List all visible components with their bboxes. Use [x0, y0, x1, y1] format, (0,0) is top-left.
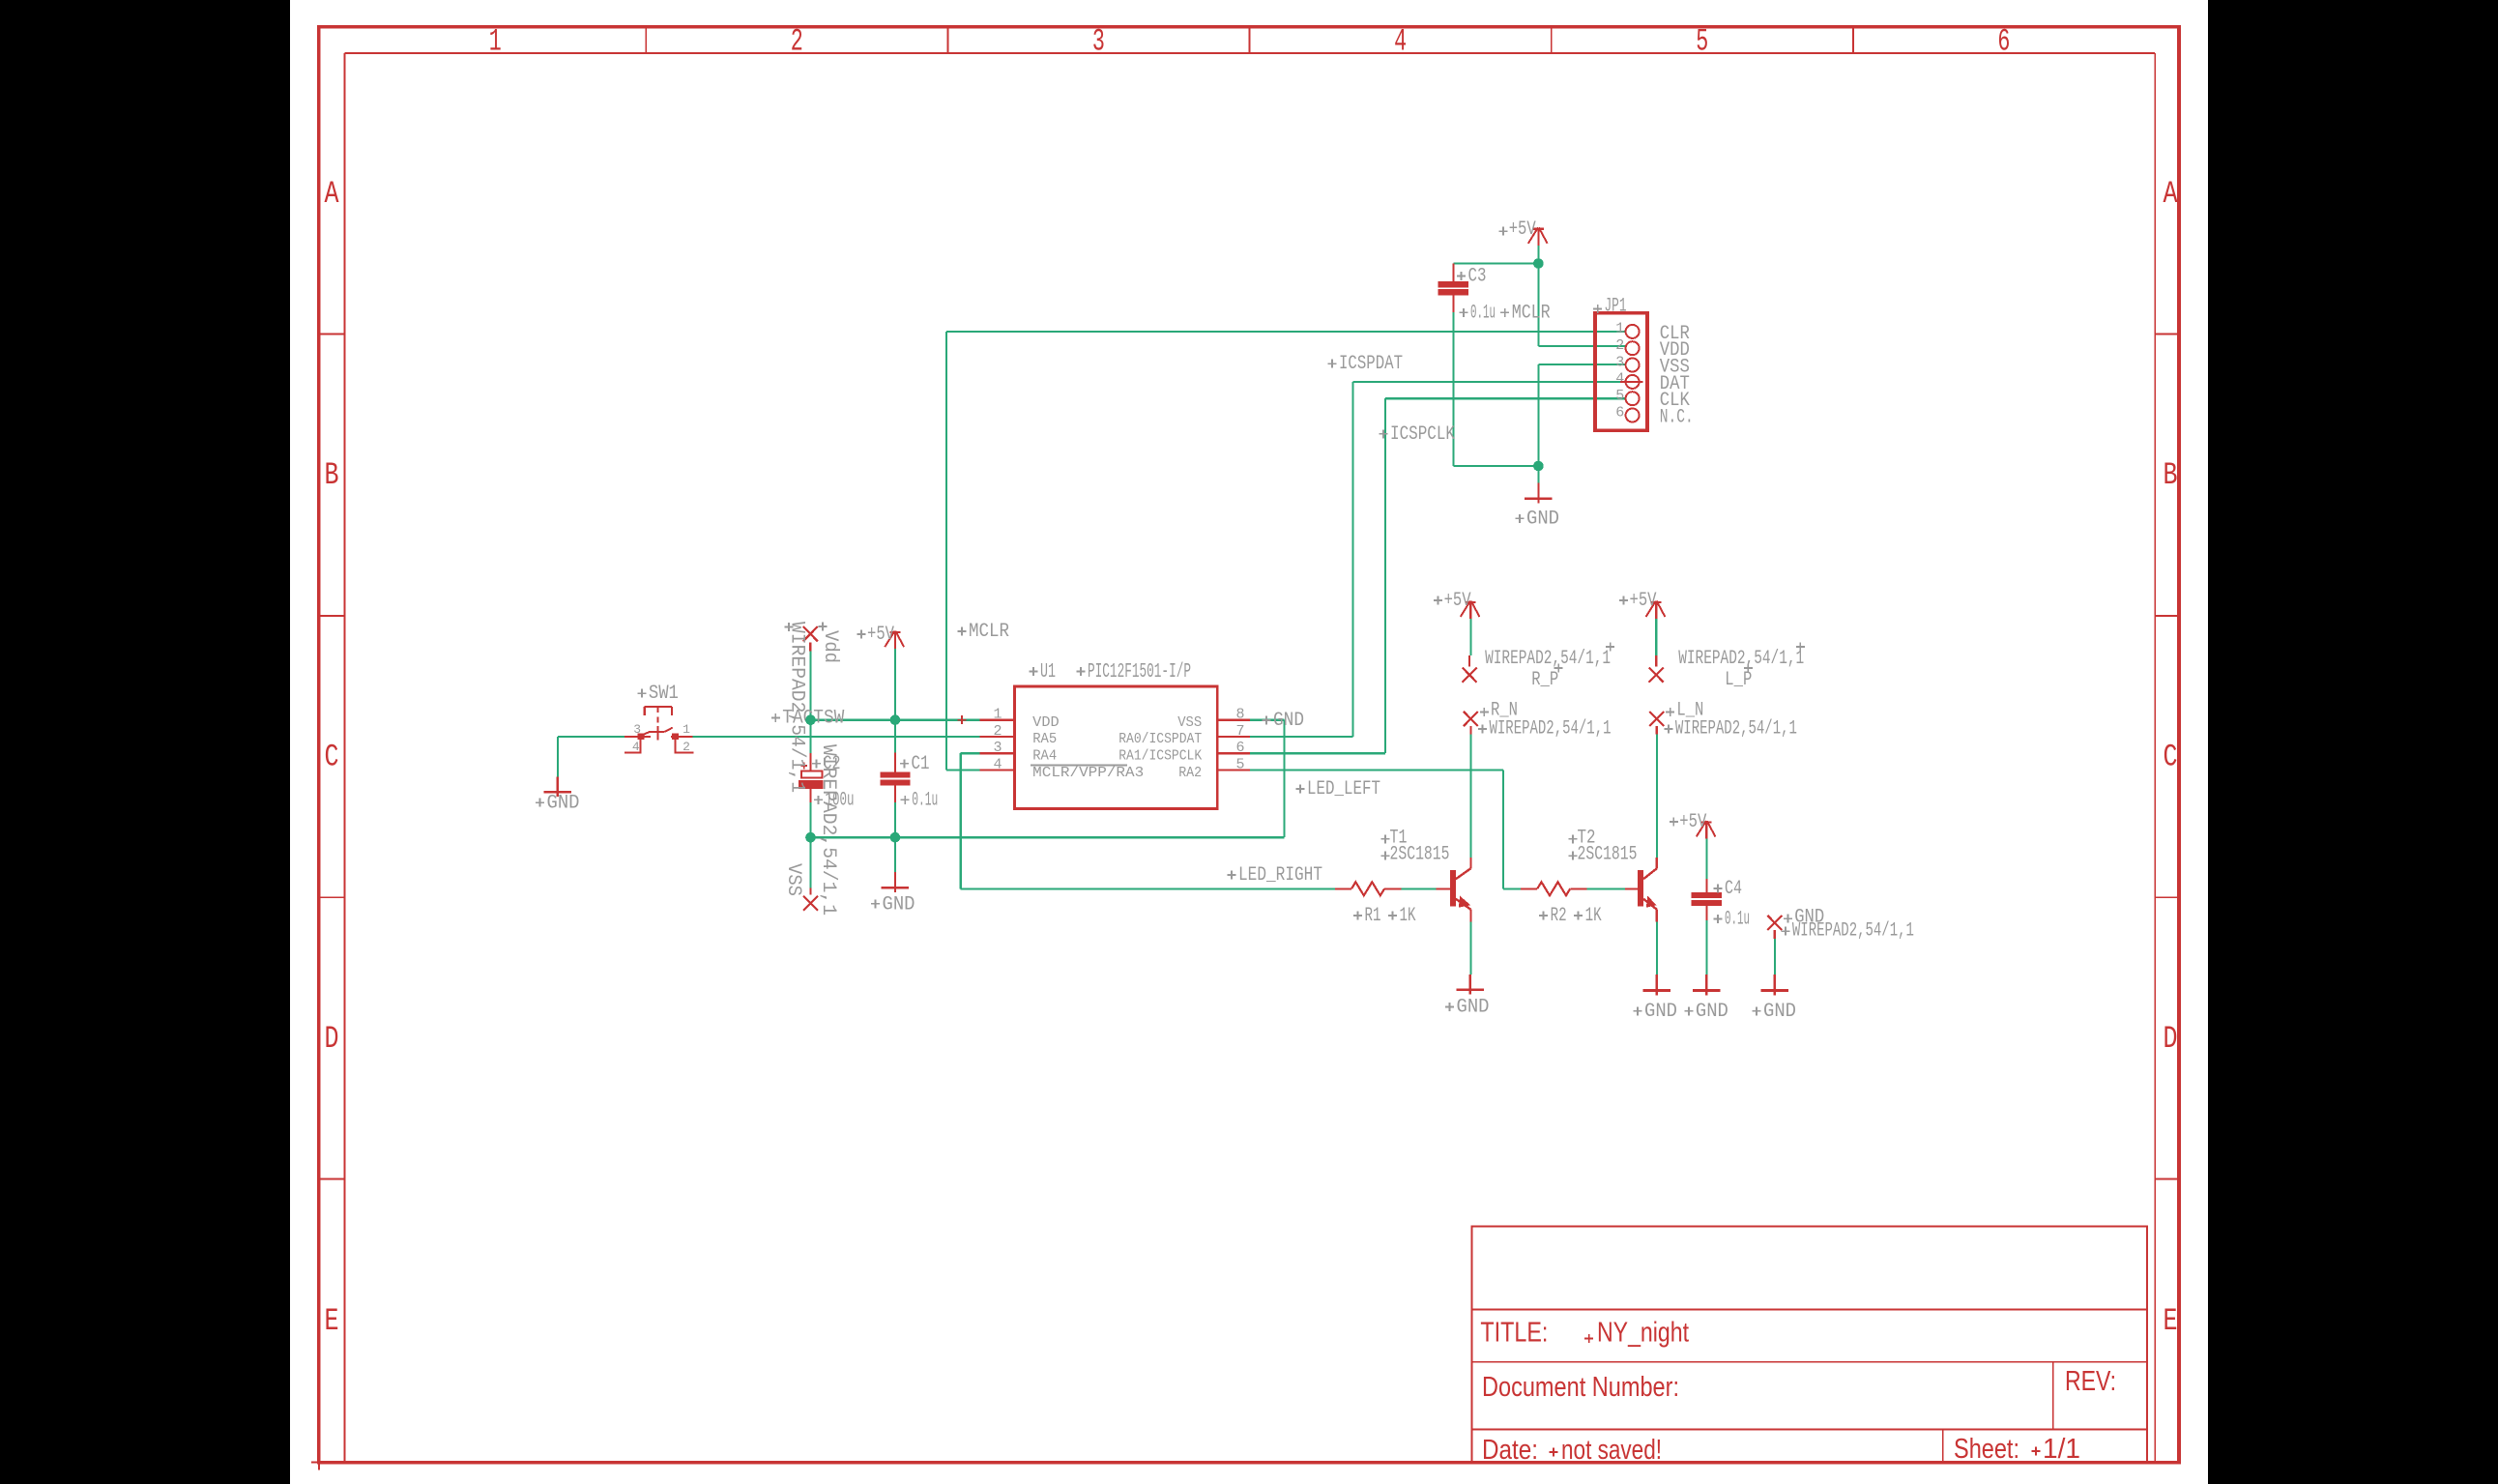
wire net LED_RIGHT wire to R1 — [961, 887, 1335, 889]
svg-text:1: 1 — [993, 707, 1002, 723]
R1 value label 1K — [1388, 905, 1416, 927]
R1 name label — [1353, 905, 1381, 927]
switch SW1 — [624, 707, 693, 753]
svg-text:GND: GND — [1644, 1001, 1677, 1023]
supply +5V above C1 label — [857, 624, 895, 646]
svg-text:2SC1815: 2SC1815 — [1578, 844, 1638, 866]
svg-text:REV:: REV: — [2065, 1366, 2116, 1397]
capacitor C2 polarized — [799, 753, 823, 802]
svg-text:B: B — [2164, 457, 2178, 493]
supply +5V above L_P label — [1619, 590, 1657, 612]
wire net VDD wire 5V-junction to C3 corner — [1453, 262, 1538, 264]
frame row label A left — [325, 176, 340, 212]
svg-text:RA2: RA2 — [1178, 765, 1202, 781]
T1 name label — [1381, 828, 1408, 850]
wire net VDD wire junction down — [1537, 264, 1539, 347]
net label ICSPDAT — [1328, 353, 1404, 375]
svg-text:RA5: RA5 — [1032, 731, 1057, 747]
title block REV label — [2065, 1366, 2116, 1397]
JP1 pad 3 — [1626, 359, 1640, 372]
svg-text:2: 2 — [1615, 337, 1624, 354]
U1 pin name RA5 — [1032, 731, 1057, 747]
svg-text:1: 1 — [489, 24, 502, 60]
wire net VDD wire 5V to junction — [894, 649, 896, 720]
svg-text:5: 5 — [1615, 388, 1624, 404]
svg-text:LED_LEFT: LED_LEFT — [1307, 778, 1380, 800]
U1 pin name RA0/ICSPDAT — [1118, 731, 1202, 747]
junction GND C2 rail — [805, 832, 816, 843]
svg-text:N.C.: N.C. — [1660, 407, 1694, 429]
svg-text:GND: GND — [1696, 1001, 1728, 1023]
net label LED_RIGHT — [1228, 864, 1323, 887]
JP1 pin number 5 — [1615, 388, 1624, 404]
wirepad Vdd origin crosses — [785, 623, 828, 632]
wire net SW wire left of SW1 — [558, 736, 624, 738]
svg-text:3: 3 — [1615, 354, 1624, 370]
JP1 pin number 1 — [1615, 321, 1624, 337]
svg-text:D: D — [2164, 1021, 2178, 1057]
title block sheet value 1/1 — [2032, 1434, 2081, 1465]
C3 name label — [1457, 266, 1487, 288]
svg-text:WIREPAD2,54/1,1: WIREPAD2,54/1,1 — [1485, 648, 1611, 670]
wire net VDD wire junction to C1 — [894, 720, 896, 753]
junction VDD C1/pin1 — [890, 714, 901, 725]
U1 pin 1 number — [993, 707, 1002, 723]
ground under C1 — [882, 872, 910, 892]
JP1 pad label VDD — [1660, 339, 1690, 362]
wirepad Vdd — [803, 626, 818, 652]
svg-text:A: A — [2164, 176, 2179, 212]
net label MCLR at U1 — [958, 621, 1010, 643]
C4 value label 0.1u — [1714, 909, 1751, 931]
frame column label 3 — [1092, 24, 1105, 60]
wire net VDD wire 5V symbol to junction — [1537, 246, 1539, 264]
C1 name label — [900, 753, 930, 775]
wire net GND wire to VSS pad — [809, 837, 811, 887]
svg-text:NY_night: NY_night — [1597, 1318, 1689, 1349]
JP1 pad label CLR — [1660, 323, 1690, 345]
U1 MCLR overline — [1031, 765, 1127, 767]
wire net LED_LEFT wire to R2 — [1503, 887, 1521, 889]
frame inner border top — [344, 52, 2155, 54]
supply +5V above R_P label — [1434, 590, 1471, 612]
title block Date label — [1482, 1435, 1538, 1466]
svg-text:C4: C4 — [1725, 878, 1742, 900]
wirepad R_N value label — [1478, 717, 1611, 740]
wire net MCLR wire to U1 pin4 — [946, 769, 980, 771]
svg-text:VDD: VDD — [1032, 714, 1060, 731]
frame row label D right — [2164, 1021, 2178, 1057]
wirepad L_N — [1649, 712, 1664, 735]
svg-text:3: 3 — [993, 740, 1002, 756]
svg-text:C: C — [325, 740, 339, 775]
frame column label 1 — [489, 24, 502, 60]
frame row label C right — [2164, 740, 2178, 775]
svg-text:SW1: SW1 — [649, 683, 679, 705]
T2 name label — [1569, 828, 1596, 850]
SW1 pin number 1 — [683, 722, 690, 737]
C4 name label — [1714, 878, 1743, 900]
svg-text:1K: 1K — [1400, 905, 1416, 927]
svg-text:C: C — [2164, 740, 2178, 775]
frame outer border — [319, 27, 2179, 1463]
ground under T2 — [1643, 975, 1671, 995]
svg-text:GND: GND — [1273, 710, 1304, 732]
wirepad R_P — [1463, 655, 1477, 683]
svg-text:0.1u: 0.1u — [1470, 302, 1496, 324]
net label MCLR at C3 — [1500, 302, 1551, 324]
wire net R1-T1 wire — [1401, 887, 1436, 889]
svg-text:+5V: +5V — [867, 624, 894, 646]
svg-text:6: 6 — [1997, 24, 2010, 60]
IC U1 PIC12F1501 body — [1015, 686, 1218, 809]
svg-text:ICSPCLK: ICSPCLK — [1390, 423, 1455, 446]
T2 value label 2SC1815 — [1569, 844, 1638, 866]
wire net GND wire U1 pin8 — [1250, 719, 1285, 721]
svg-text:E: E — [325, 1303, 339, 1339]
svg-text:RA4: RA4 — [1032, 748, 1057, 765]
U1 pin 2 number — [993, 723, 1002, 740]
U1 pin 2 stub — [980, 736, 1015, 738]
svg-text:R1: R1 — [1365, 905, 1381, 927]
capacitor C4 — [1692, 879, 1722, 920]
wire net MCLR wire long horizontal — [946, 331, 1626, 333]
svg-text:0.1u: 0.1u — [1725, 909, 1750, 931]
wirepad L_N name label — [1666, 700, 1703, 722]
C2 value label 100u — [814, 789, 855, 811]
svg-text:+5V: +5V — [1509, 218, 1536, 241]
junction VDD at 5V/JP1 — [1533, 258, 1544, 269]
SW1 pin number 3 — [633, 722, 641, 737]
ground under T1 — [1456, 975, 1484, 995]
frame row label B left — [325, 457, 339, 493]
U1 pin 8 number — [1235, 707, 1244, 723]
frame row dividers left — [319, 334, 345, 1178]
wirepad R_N name label — [1480, 700, 1518, 722]
wire net ICSPDAT wire to U1 pin7 — [1250, 736, 1352, 738]
svg-text:GND: GND — [883, 893, 915, 916]
wire net GND wire pin8 down — [1283, 720, 1285, 838]
C2 name label — [812, 753, 841, 775]
svg-text:WIREPAD2,54/1,1: WIREPAD2,54/1,1 — [1678, 648, 1804, 670]
net label LED_LEFT — [1296, 778, 1381, 800]
svg-text:C3: C3 — [1468, 266, 1487, 288]
U1 pin name RA1/ICSPCLK — [1118, 748, 1202, 765]
SW1 pin number 4 — [632, 740, 640, 754]
U1 pin name VDD — [1032, 714, 1060, 731]
title block Sheet label — [1954, 1434, 2019, 1465]
svg-text:4: 4 — [1615, 371, 1624, 388]
svg-text:PIC12F1501-I/P: PIC12F1501-I/P — [1088, 661, 1191, 684]
wire net MCLR wire vertical — [945, 332, 947, 771]
wirepad R_P name label — [1531, 664, 1563, 692]
sheet origin cross — [311, 1455, 327, 1470]
svg-text:MCLR: MCLR — [1512, 302, 1551, 324]
wirepad VSS — [803, 888, 818, 911]
U1 pin 3 number — [993, 740, 1002, 756]
frame row dividers right — [2155, 334, 2179, 1178]
svg-text:2: 2 — [993, 723, 1002, 740]
svg-text:4: 4 — [1394, 24, 1407, 60]
wire net GND wire junction to C2 top — [809, 720, 811, 754]
U1 pin 7 number — [1235, 723, 1244, 740]
wire net GND wire T1 emitter — [1469, 921, 1471, 974]
frame column label 6 — [1997, 24, 2010, 60]
wire net L_N wire pad to T2 collector — [1656, 735, 1658, 858]
JP1 pin number 3 — [1615, 354, 1624, 370]
svg-text:WIREPAD2,54/1,1: WIREPAD2,54/1,1 — [1792, 919, 1914, 942]
wirepad L_P value label — [1678, 643, 1805, 671]
svg-text:A: A — [325, 176, 340, 212]
title block title value NY_night — [1584, 1318, 1689, 1349]
svg-text:TITLE:: TITLE: — [1480, 1318, 1548, 1349]
svg-text:ICSPDAT: ICSPDAT — [1339, 353, 1403, 375]
svg-text:WIREPAD2,54/1,1: WIREPAD2,54/1,1 — [1490, 717, 1612, 740]
wire net GND wire C3 bottom — [1452, 312, 1454, 466]
U1 pin 4 stub — [980, 769, 1015, 771]
svg-text:WIREPAD2,54/1,1: WIREPAD2,54/1,1 — [817, 744, 839, 916]
svg-text:3: 3 — [633, 722, 641, 737]
JP1 origin cross pin4 — [1620, 381, 1643, 383]
svg-text:Vdd: Vdd — [819, 630, 841, 663]
title block Document Number label — [1482, 1372, 1679, 1403]
wire net LED_LEFT wire vertical — [1502, 771, 1504, 889]
frame column label 5 — [1696, 24, 1708, 60]
svg-text:MCLR: MCLR — [969, 621, 1009, 643]
wire net GND wire T2 emitter — [1656, 920, 1658, 975]
supply +5V above R_P — [1461, 601, 1480, 620]
transistor T2 2SC1815 — [1625, 858, 1657, 922]
svg-text:Date:: Date: — [1482, 1435, 1538, 1466]
title block outline — [1472, 1227, 2147, 1463]
svg-text:6: 6 — [1235, 740, 1244, 756]
wire net SW wire down to gnd — [557, 737, 559, 777]
wire net GND wire JP1 pin3 — [1538, 364, 1625, 365]
U1 pin name RA2 — [1178, 765, 1202, 781]
supply +5V above C1 — [885, 631, 904, 650]
ground under C4 label — [1684, 1001, 1728, 1023]
JP1 pad 5 — [1626, 392, 1640, 405]
wire net GND wire C2 bottom — [809, 802, 811, 837]
SW1 pin number 2 — [683, 740, 690, 754]
supply +5V above JP1 label — [1499, 218, 1536, 241]
svg-text:2: 2 — [791, 24, 803, 60]
capacitor C1 — [880, 753, 910, 803]
wire net R2-T2 wire — [1587, 887, 1625, 889]
ground under C1 label — [871, 893, 915, 916]
svg-text:6: 6 — [1615, 404, 1624, 421]
C1 value label 0.1u — [901, 789, 939, 811]
svg-text:0.1u: 0.1u — [912, 789, 938, 811]
svg-text:8: 8 — [1235, 707, 1244, 723]
wire net VDD wire 5V to C4 — [1705, 839, 1707, 879]
wire net VDD wire to U1 pin1 — [811, 719, 980, 721]
U1 pin name VSS — [1177, 714, 1202, 731]
ground under SW1 net label — [536, 793, 580, 815]
svg-text:JP1: JP1 — [1605, 296, 1627, 318]
U1 pin name RA4 — [1032, 748, 1057, 765]
ground under T1 label — [1445, 997, 1490, 1019]
supply +5V above L_P — [1646, 601, 1666, 620]
U1 pin 6 stub — [1217, 752, 1250, 754]
resistor R2 — [1521, 882, 1587, 895]
JP1 pad label N.C. — [1660, 407, 1694, 429]
JP1 pad 1 — [1626, 325, 1640, 338]
svg-text:1: 1 — [1615, 321, 1624, 337]
wire net VDD wire L_P 5V — [1655, 619, 1657, 655]
ground under GND pad — [1761, 975, 1789, 995]
U1 pin 8 stub — [1217, 719, 1250, 721]
wire net GND wire C1 to gnd symbol — [894, 837, 896, 874]
wirepad L_N value label — [1665, 717, 1797, 740]
junction GND under JP1 — [1533, 461, 1544, 472]
wirepad VSS name vertical — [782, 863, 804, 896]
net label ICSPCLK — [1380, 423, 1456, 446]
wirepad VSS value vertical — [817, 744, 839, 916]
svg-text:7: 7 — [1235, 723, 1244, 740]
wire net GND wire C3 to junction — [1453, 465, 1538, 467]
frame row label B right — [2164, 457, 2178, 493]
capacitor C3 — [1438, 264, 1468, 312]
svg-text:1: 1 — [683, 722, 690, 737]
ground under GND pad label — [1753, 1001, 1797, 1023]
svg-text:4: 4 — [632, 740, 640, 754]
wirepad GND — [1767, 916, 1782, 939]
U1 pin 3 stub — [980, 752, 1015, 754]
frame column label 4 — [1394, 24, 1407, 60]
frame row label C left — [325, 740, 339, 775]
wire net GND wire vertical under JP1 — [1537, 364, 1539, 466]
SW1 value label TACTSW — [771, 708, 845, 730]
U1 origin cross — [958, 715, 967, 724]
svg-text:Document Number:: Document Number: — [1482, 1372, 1679, 1403]
svg-text:WIREPAD2,54/1,1: WIREPAD2,54/1,1 — [1675, 717, 1797, 740]
JP1 pin number 2 — [1615, 337, 1624, 354]
svg-text:GND: GND — [1526, 508, 1559, 530]
svg-text:L_P: L_P — [1725, 669, 1752, 691]
wire net LED_RIGHT wire U1 pin3 stub — [961, 752, 980, 754]
wirepad L_P name label — [1725, 664, 1753, 692]
U1 pin 7 stub — [1217, 736, 1250, 738]
svg-text:1/1: 1/1 — [2043, 1434, 2080, 1465]
wire net R_N wire pad to T1 collector — [1469, 735, 1471, 858]
U1 pin 4 number — [993, 757, 1002, 773]
wirepad Vdd value vertical — [786, 622, 808, 793]
svg-text:GND: GND — [1763, 1001, 1796, 1023]
JP1 pad 6 — [1626, 409, 1640, 422]
supply +5V above C4 label — [1670, 811, 1707, 833]
svg-text:R2: R2 — [1551, 905, 1567, 927]
wirepad L_P — [1649, 655, 1664, 683]
resistor R1 — [1335, 882, 1401, 895]
svg-text:VSS: VSS — [782, 863, 804, 896]
svg-text:B: B — [325, 457, 339, 493]
svg-text:MCLR/VPP/RA3: MCLR/VPP/RA3 — [1032, 765, 1144, 781]
wire net ICSPCLK wire to U1 pin6 — [1250, 752, 1385, 754]
wire net ICSPDAT wire to JP1 pin4 — [1352, 381, 1625, 383]
wire net GND wire pad down — [1774, 939, 1776, 975]
frame inner border right — [2154, 53, 2156, 1463]
U1 pin 5 number — [1235, 757, 1244, 773]
svg-text:2SC1815: 2SC1815 — [1390, 844, 1450, 866]
supply +5V above JP1 — [1528, 227, 1548, 246]
svg-text:2: 2 — [683, 740, 690, 754]
svg-text:LED_RIGHT: LED_RIGHT — [1238, 864, 1322, 887]
junction VDD Vdd-pad/pin1 — [805, 714, 816, 725]
wirepad GND value label — [1782, 919, 1914, 942]
wire net ICSPDAT wire vertical — [1351, 382, 1353, 737]
wire net GND wire C4 bottom — [1705, 920, 1707, 975]
frame row label E left — [325, 1303, 339, 1339]
connector JP1 body — [1595, 313, 1647, 431]
wire net VDD wire to JP1 pin2 — [1538, 345, 1625, 347]
U1 name label — [1030, 661, 1057, 684]
SW1 name label — [637, 683, 679, 705]
svg-text:5: 5 — [1235, 757, 1244, 773]
R2 value label 1K — [1574, 905, 1602, 927]
ground under JP1 — [1525, 483, 1553, 504]
U1 pin name MCLR/VPP/RA3 — [1032, 765, 1144, 781]
svg-text:GND: GND — [1457, 997, 1490, 1019]
ground under SW1 net — [544, 776, 572, 797]
title block TITLE label — [1480, 1318, 1548, 1349]
JP1 pad 4 — [1626, 375, 1640, 389]
svg-text:RA1/ICSPCLK: RA1/ICSPCLK — [1118, 748, 1202, 765]
wirepad R_N — [1464, 712, 1478, 735]
ground under T2 label — [1634, 1001, 1678, 1023]
frame column dividers — [646, 27, 1853, 53]
svg-text:C1: C1 — [912, 753, 930, 775]
R2 name label — [1539, 905, 1567, 927]
wire net ICSPCLK wire vertical — [1384, 398, 1386, 753]
supply +5V above C4 — [1697, 821, 1716, 839]
svg-text:R_P: R_P — [1531, 669, 1558, 691]
title block date value not saved! — [1550, 1435, 1663, 1466]
svg-text:not saved!: not saved! — [1561, 1435, 1662, 1466]
frame row label D left — [325, 1021, 339, 1057]
C3 value label 0.1u — [1460, 302, 1496, 324]
svg-text:3: 3 — [1092, 24, 1105, 60]
wire net LED_LEFT wire U1 pin5 — [1250, 769, 1503, 771]
svg-text:+5V: +5V — [1679, 811, 1706, 833]
svg-text:1K: 1K — [1585, 905, 1602, 927]
U1 pin 5 stub — [1217, 769, 1250, 771]
wire net ICSPCLK wire to JP1 pin5 — [1385, 397, 1626, 399]
wirepad Vdd name vertical — [819, 630, 841, 663]
JP1 pad label CLK — [1660, 390, 1690, 412]
schematic sheet background — [290, 0, 2208, 1484]
frame row label A right — [2164, 176, 2179, 212]
wire net SW wire SW1 to U1 pin2 — [692, 736, 979, 738]
U1 pin 6 number — [1235, 740, 1244, 756]
svg-text:VSS: VSS — [1177, 714, 1202, 731]
wire net LED_RIGHT wire vertical — [960, 753, 962, 888]
svg-text:4: 4 — [993, 757, 1002, 773]
JP1 pad label VSS — [1660, 357, 1690, 379]
wirepad GND name label — [1784, 907, 1824, 929]
svg-text:GND: GND — [547, 793, 580, 815]
svg-text:+5V: +5V — [1630, 590, 1657, 612]
svg-text:Sheet:: Sheet: — [1954, 1434, 2019, 1465]
frame inner border left — [343, 53, 345, 1463]
svg-text:RA0/ICSPDAT: RA0/ICSPDAT — [1118, 731, 1202, 747]
wire net VDD wire R_P 5V — [1469, 619, 1471, 655]
wire net GND wire junction to gnd symbol — [1537, 466, 1539, 485]
JP1 name label — [1593, 296, 1626, 318]
wire net GND wire C1 bottom — [894, 786, 896, 838]
frame row label E right — [2164, 1303, 2178, 1339]
U1 pin 1 stub — [980, 719, 1015, 721]
